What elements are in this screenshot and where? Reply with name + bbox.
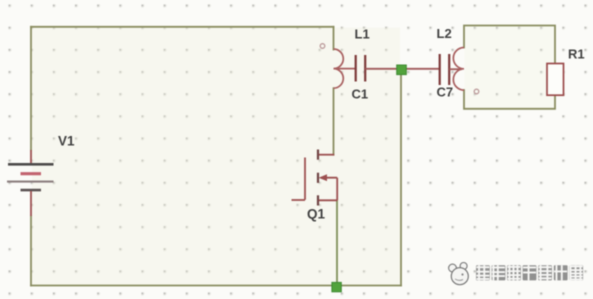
svg-text:L1: L1 bbox=[355, 26, 370, 41]
svg-text:C7: C7 bbox=[437, 85, 454, 100]
svg-text:C1: C1 bbox=[352, 86, 369, 101]
svg-text:Q1: Q1 bbox=[307, 207, 326, 222]
svg-text:V1: V1 bbox=[58, 133, 75, 148]
svg-text:L2: L2 bbox=[437, 26, 452, 41]
svg-text:R1: R1 bbox=[568, 47, 585, 62]
